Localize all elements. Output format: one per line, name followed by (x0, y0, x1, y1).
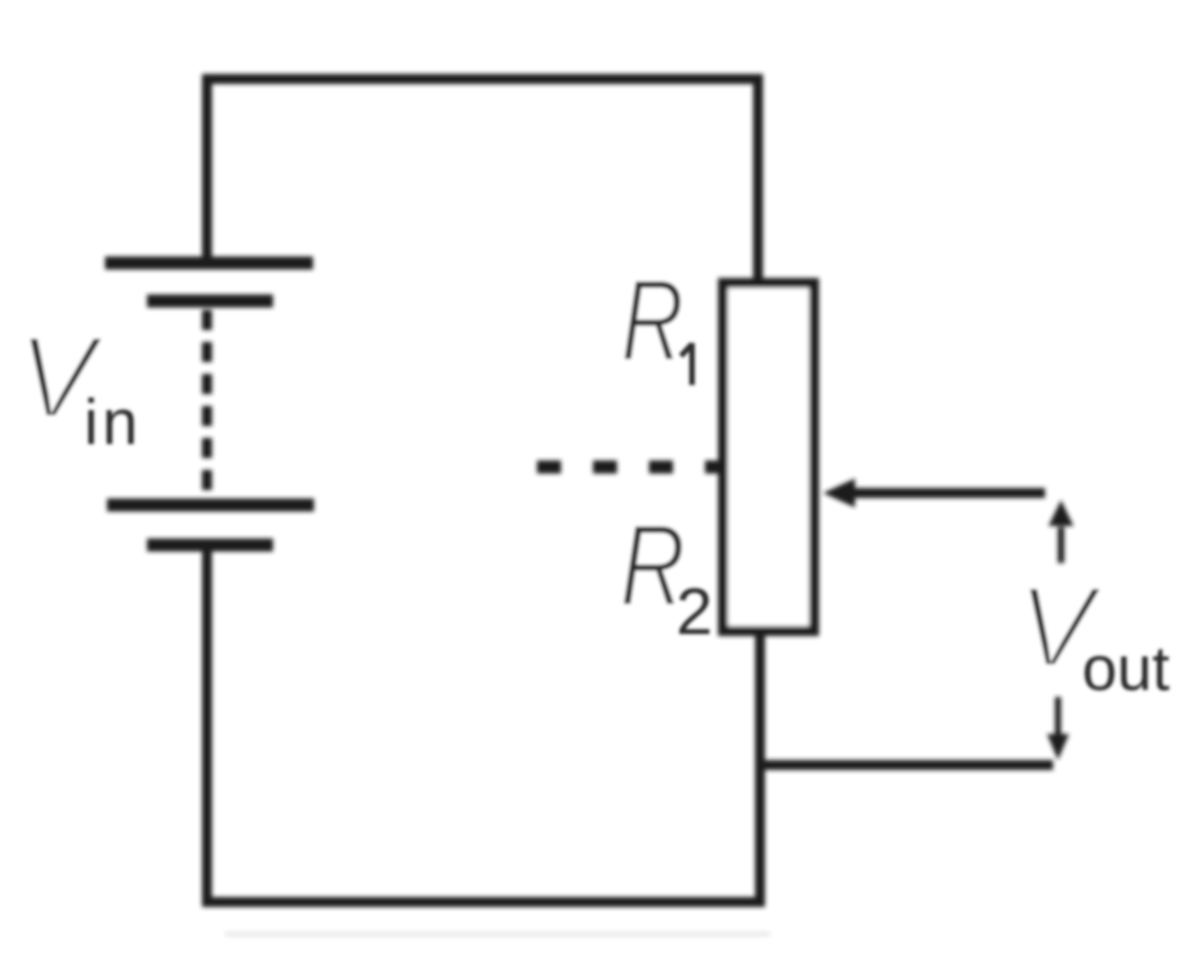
battery V_in cell 2 positive plate (107, 499, 314, 512)
battery V_in cell 1 positive plate (105, 257, 313, 270)
V_out arrow up shaft (1058, 527, 1065, 563)
wiper dashed tap line (537, 461, 723, 474)
wiper arrowhead (823, 479, 855, 508)
battery V_in cell 2 negative plate (147, 539, 273, 552)
wire right lower (R2 bottom, pin 3 to node B) (755, 631, 765, 902)
V_out arrow up head (1049, 500, 1074, 526)
potentiometer body R1/R2 (723, 283, 814, 631)
V_out arrow down shaft (1055, 697, 1061, 734)
wire V_out reference (node B branch) (760, 760, 1048, 770)
wire bottom (207, 897, 760, 907)
svg-text:out: out (1082, 634, 1170, 704)
battery V_in cell 1 negative plate (147, 295, 273, 308)
wire right upper (node A to R1 top, pin 1) (753, 79, 763, 283)
faint scan echo under bottom wire (225, 932, 770, 937)
svg-text:in: in (84, 386, 142, 458)
wire top (207, 74, 758, 84)
svg-text:R: R (621, 255, 684, 385)
label R1 subscript 1 (681, 343, 692, 385)
wire left lower (battery - to node B) (202, 550, 212, 902)
V_out arrow down head (1047, 734, 1069, 760)
battery V_in omitted-cells dashed link (202, 310, 212, 490)
wiper arrow wire (pin 2) (852, 488, 1040, 498)
svg-text:2: 2 (676, 574, 713, 648)
wire left upper (node A to battery +) (202, 79, 212, 257)
